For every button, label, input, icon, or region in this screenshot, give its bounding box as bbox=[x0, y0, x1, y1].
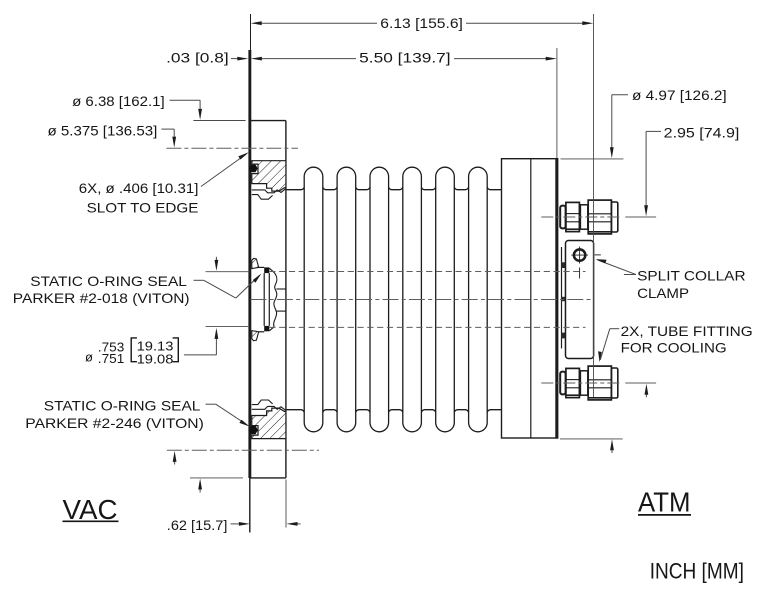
dim ø4.97 right flange OD bbox=[560, 95, 628, 453]
hub bottom edge bbox=[259, 331, 265, 333]
dim ø6.38 flange OD bbox=[170, 100, 246, 492]
left flange upper hatched section bbox=[252, 161, 286, 191]
o-ring #2-246 section (bottom) bbox=[249, 426, 258, 434]
flange bore step joint lines (upper) bbox=[252, 189, 286, 193]
svg-text:CLAMP: CLAMP bbox=[637, 285, 689, 301]
bellows crest ring 5 bbox=[436, 167, 455, 432]
dim ø.753/.751 bore bbox=[184, 257, 250, 355]
hub bottom-left lip with hatch bbox=[252, 331, 259, 341]
left flange left face (thick sealing face line + extension) bbox=[250, 14, 252, 50]
svg-text:STATIC O-RING SEAL: STATIC O-RING SEAL bbox=[30, 273, 187, 289]
svg-text:STATIC O-RING SEAL: STATIC O-RING SEAL bbox=[44, 397, 201, 413]
svg-text:PARKER #2-018 (VITON): PARKER #2-018 (VITON) bbox=[13, 290, 190, 306]
dim 2.95 fitting spacing bbox=[644, 131, 661, 397]
right flange body bbox=[502, 159, 557, 438]
label split collar clamp bbox=[596, 259, 637, 274]
bellows crest ring 4 bbox=[403, 167, 422, 432]
o-ring #2-246 section (top) bbox=[249, 165, 258, 173]
svg-text:.751: .751 bbox=[98, 351, 125, 366]
bore hidden line bottom bbox=[269, 326, 585, 328]
bolt hole centerline cross bbox=[571, 254, 588, 256]
svg-text:6.13 [155.6]: 6.13 [155.6] bbox=[380, 15, 463, 31]
bellows crest ring 2 bbox=[337, 167, 356, 432]
svg-text:2.95 [74.9]: 2.95 [74.9] bbox=[664, 124, 740, 140]
label o-ring #2-018 bbox=[194, 273, 262, 298]
right flange weld joint line bbox=[530, 159, 532, 438]
tube fitting bottom bbox=[560, 366, 618, 400]
o-ring #2-018 section (bottom square) bbox=[264, 326, 269, 331]
svg-text:SLOT TO EDGE: SLOT TO EDGE bbox=[87, 200, 199, 216]
bottom fitting centerline bbox=[541, 382, 620, 384]
svg-text:VAC: VAC bbox=[63, 494, 118, 525]
svg-text:ATM: ATM bbox=[638, 486, 691, 517]
bellows crest ring 3 bbox=[370, 167, 389, 432]
sleeve gap block middle bbox=[561, 297, 566, 301]
label o-ring #2-246 bbox=[206, 404, 250, 426]
svg-text:SPLIT COLLAR: SPLIT COLLAR bbox=[637, 268, 746, 284]
bellows root line bottom segments bbox=[287, 410, 502, 413]
svg-text:ø: ø bbox=[85, 350, 93, 365]
svg-text:ø 6.38 [162.1]: ø 6.38 [162.1] bbox=[72, 93, 165, 109]
tube stub top edge bbox=[276, 288, 286, 290]
tube fitting top bbox=[560, 200, 618, 234]
bore hidden line top bbox=[269, 271, 585, 273]
dim .62 flange thickness bbox=[231, 480, 301, 528]
svg-text:ø 4.97 [126.2]: ø 4.97 [126.2] bbox=[632, 87, 727, 103]
bolt circle centerline bottom bbox=[167, 449, 319, 451]
hub top chamfer to break bbox=[269, 268, 274, 272]
hub top-left lip with hatch bbox=[252, 258, 259, 268]
clamp bolt hole bbox=[574, 249, 585, 260]
bellows root line top segments bbox=[287, 187, 502, 190]
svg-text:.62 [15.7]: .62 [15.7] bbox=[167, 517, 228, 533]
top fitting centerline bbox=[541, 216, 620, 218]
hub break (wavy) edge bbox=[274, 272, 277, 326]
svg-text:19.08: 19.08 bbox=[137, 352, 174, 367]
right flange sealing face (thick) bbox=[556, 158, 558, 439]
hub top edge bbox=[259, 266, 265, 268]
tube stub bottom edge bbox=[276, 310, 286, 312]
dim 6X slot leader bbox=[201, 152, 249, 186]
svg-text:.03 [0.8]: .03 [0.8] bbox=[166, 50, 229, 66]
bolt circle centerline top bbox=[166, 147, 298, 149]
label 2x tube fitting bbox=[598, 329, 619, 363]
main axis centerline bbox=[251, 299, 592, 301]
flange bore step joint lines (lower) bbox=[252, 406, 286, 410]
svg-text:INCH [MM]: INCH [MM] bbox=[650, 558, 744, 583]
svg-text:6X, ø .406 [10.31]: 6X, ø .406 [10.31] bbox=[79, 180, 199, 196]
svg-text:PARKER #2-246 (VITON): PARKER #2-246 (VITON) bbox=[25, 415, 204, 431]
hub o-ring groove walls bbox=[263, 273, 265, 326]
split collar clamp body bbox=[566, 241, 594, 359]
svg-text:FOR COOLING: FOR COOLING bbox=[621, 339, 727, 355]
dim ø5.375 bolt circle bbox=[161, 129, 176, 464]
dim 6.13 overall bbox=[251, 14, 594, 397]
bellows crest ring 1 bbox=[304, 167, 323, 432]
svg-text:2X, TUBE FITTING: 2X, TUBE FITTING bbox=[621, 323, 753, 339]
svg-text:5.50 [139.7]: 5.50 [139.7] bbox=[359, 50, 450, 66]
sleeve gap block top bbox=[561, 262, 566, 268]
sleeve gap block bottom bbox=[561, 333, 566, 339]
left flange lower hatched section bbox=[252, 408, 286, 439]
left flange outline bbox=[250, 120, 286, 122]
o-ring #2-018 section (top square) bbox=[264, 267, 269, 273]
bellows crest ring 6 bbox=[469, 167, 488, 432]
split collar inner sleeve bbox=[561, 247, 563, 349]
svg-text:ø 5.375 [136.53]: ø 5.375 [136.53] bbox=[48, 122, 158, 138]
hub bottom chamfer to break bbox=[269, 327, 274, 331]
dim .03 / 5.50 bbox=[231, 48, 557, 158]
